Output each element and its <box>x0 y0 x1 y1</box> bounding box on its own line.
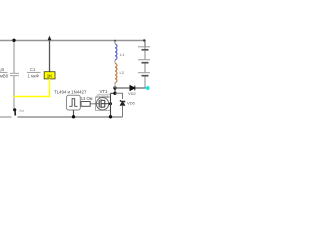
wire selected yellow net horizontal <box>14 96 51 98</box>
wire between coils <box>114 60 116 64</box>
resistor R2 13 Ом <box>81 102 90 107</box>
node arrow marker at top rail <box>48 36 52 41</box>
svg-text:VD2: VD2 <box>128 91 137 96</box>
wire drain to node <box>111 92 116 94</box>
wire resistor R1 top lead <box>49 41 51 73</box>
wire generator output lead <box>90 103 95 105</box>
transistor VT1 MOSFET body <box>95 98 109 110</box>
wire generator ground pin <box>73 110 75 117</box>
node junction dot drain/VD6 <box>113 92 116 95</box>
svg-text:Кн: Кн <box>20 108 25 113</box>
svg-text:1 мкФ: 1 мкФ <box>28 74 39 79</box>
wire coil to node <box>114 83 116 89</box>
wire drain/source vertical <box>110 93 112 117</box>
node top-right corner dot <box>143 39 145 41</box>
label cut-off component at left edge <box>0 67 9 79</box>
wire zener branch top <box>115 93 123 99</box>
svg-text:L1: L1 <box>120 52 125 57</box>
zener diode VD6 <box>120 100 125 105</box>
wire drain pin stub <box>105 103 111 105</box>
svg-text:C1: C1 <box>30 67 36 72</box>
capacitor C1 plates <box>10 73 19 75</box>
node junction dot L2/VD2 <box>113 86 116 89</box>
wire top supply rail <box>0 40 145 42</box>
generator G1 box with pulse symbol <box>67 95 81 110</box>
svg-text:VD6: VD6 <box>127 101 136 106</box>
svg-text:TL494 и 1N4427: TL494 и 1N4427 <box>54 90 87 95</box>
node pin dot <box>109 102 112 105</box>
wire bottom ground rail main segment <box>18 116 123 118</box>
switch contact dot <box>13 108 16 111</box>
wire selected yellow net vertical <box>49 79 51 97</box>
wire capacitor branch lower <box>13 76 15 109</box>
svg-text:L2: L2 <box>120 70 125 75</box>
svg-text:VT1: VT1 <box>100 89 108 94</box>
endpoint marker cyan <box>145 86 151 91</box>
wire output net horizontal <box>115 87 148 89</box>
label transistor VT1 <box>96 89 110 99</box>
svg-text:мВб: мВб <box>0 74 9 79</box>
resistor R1 1K highlighted <box>44 72 55 79</box>
wire drain node vertical <box>114 88 116 93</box>
transistor VT1 component outline box <box>96 97 111 110</box>
inductor L1 <box>115 44 117 60</box>
svg-text:1K: 1K <box>47 73 53 78</box>
wire battery top corner <box>143 41 146 47</box>
svg-text:₁B: ₁B <box>0 67 4 72</box>
battery GB1 <box>138 47 150 88</box>
node junction dot source/ground rail <box>109 115 112 118</box>
node junction dot generator/ground rail <box>72 115 75 118</box>
node junction dot top rail / capacitor branch <box>12 39 15 42</box>
wire bottom ground rail left segment <box>0 116 12 118</box>
svg-text:13 Ом: 13 Ом <box>81 96 93 101</box>
inductor L2 <box>115 64 117 83</box>
switch lever <box>14 110 16 116</box>
diode VD2 <box>130 86 135 91</box>
wire capacitor branch upper <box>13 41 15 74</box>
label capacitor C1 value <box>27 67 41 79</box>
wire zener branch bottom <box>122 105 124 117</box>
wire inductor branch top tick <box>114 40 116 42</box>
